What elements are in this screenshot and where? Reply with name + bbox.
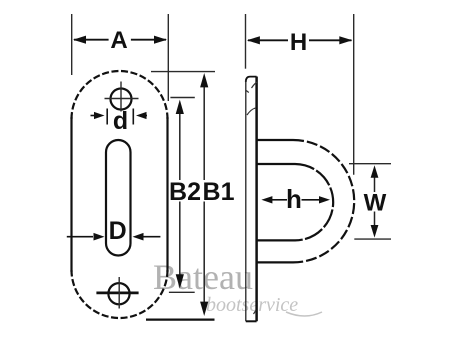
svg-text:bootservice: bootservice — [206, 294, 298, 316]
svg-text:H: H — [290, 29, 307, 56]
svg-text:A: A — [110, 27, 127, 54]
svg-text:B2: B2 — [169, 178, 201, 206]
svg-text:D: D — [109, 217, 127, 245]
svg-text:B1: B1 — [203, 178, 235, 206]
svg-text:h: h — [286, 184, 302, 214]
svg-text:W: W — [364, 190, 387, 217]
svg-text:d: d — [113, 107, 128, 135]
